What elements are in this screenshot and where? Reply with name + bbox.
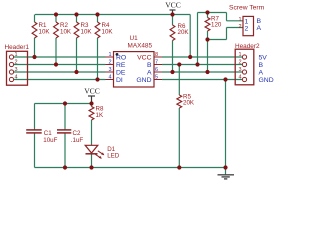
wire U1 left pin stub <box>106 64 114 66</box>
wire VCC top bus <box>35 14 190 16</box>
wire R7 bottom lead <box>207 31 209 40</box>
wire net DI row <box>14 79 106 81</box>
svg-text:B: B <box>257 18 262 25</box>
svg-text:20K: 20K <box>178 29 190 36</box>
svg-text:GND: GND <box>259 77 274 84</box>
wire vcc rail bottom left <box>35 103 92 105</box>
wire U1 left pin stub <box>106 56 114 58</box>
node junction VCC2 R8 <box>89 101 93 105</box>
node junction C2 top <box>63 101 67 105</box>
svg-text:Screw Term: Screw Term <box>229 5 265 12</box>
node junction bus R4 <box>95 12 99 16</box>
wire net DE row <box>14 71 106 73</box>
svg-text:DE: DE <box>116 69 126 76</box>
svg-text:MAX485: MAX485 <box>128 43 153 50</box>
wire U1 right pin stub <box>154 79 162 81</box>
wire R1 top lead <box>34 15 36 23</box>
svg-text:VCC: VCC <box>165 1 181 10</box>
node junction bus R3 <box>74 12 78 16</box>
node junction R5 gnd <box>177 165 181 169</box>
wire R7 bottom bus <box>208 39 227 41</box>
wire R7 top lead <box>207 13 209 18</box>
wire B branch <box>197 13 199 65</box>
svg-text:C2: C2 <box>73 130 81 137</box>
node junction B R5 <box>177 62 181 66</box>
resistor R1 <box>32 22 37 38</box>
resistor R3 <box>74 22 79 38</box>
svg-text:3: 3 <box>108 67 111 73</box>
wire R7 top bus <box>198 12 227 14</box>
wire net RE row <box>14 64 106 66</box>
resistor R6 <box>170 25 175 41</box>
Header2 pin 4 circle <box>242 77 246 81</box>
wire R2 bottom lead <box>55 38 57 65</box>
wire R2 top lead <box>55 15 57 23</box>
capacitor C1 <box>26 130 42 133</box>
svg-text:20K: 20K <box>183 100 195 107</box>
node junction VCC pin8 <box>188 55 192 59</box>
wire screw pin2 <box>227 27 244 29</box>
power VCC symbol top <box>170 10 176 15</box>
resistor R4 <box>95 22 100 38</box>
svg-text:2: 2 <box>108 60 111 66</box>
wire R8 to LED <box>91 120 93 145</box>
svg-text:2: 2 <box>245 25 249 32</box>
node junction R3 row3 <box>74 70 78 74</box>
svg-text:U1: U1 <box>130 35 139 42</box>
svg-text:GND: GND <box>136 77 151 84</box>
svg-text:VCC: VCC <box>84 87 100 96</box>
node junction R4 row4 <box>95 77 99 81</box>
svg-text:4: 4 <box>15 75 18 81</box>
svg-text:1: 1 <box>108 52 111 58</box>
wire net RO row <box>14 56 106 58</box>
power VCC symbol lower left <box>88 96 95 104</box>
svg-text:B: B <box>259 62 264 69</box>
node junction B pin7 <box>195 62 199 66</box>
ground symbol <box>218 168 235 179</box>
Header1 pin 4 circle <box>9 77 13 81</box>
wire U1 right pin stub <box>154 71 162 73</box>
screw terminal body <box>243 16 254 35</box>
wire R3 bottom lead <box>76 38 78 72</box>
node junction C2 bottom <box>63 165 67 169</box>
svg-text:8: 8 <box>155 52 158 58</box>
node junction R1 row1 <box>32 55 36 59</box>
wire C1 bottom lead <box>34 133 36 168</box>
svg-text:3: 3 <box>238 67 241 73</box>
wire screw pin2 rise <box>226 28 228 40</box>
wire R3 top lead <box>76 15 78 23</box>
Header1 pin 2 circle <box>9 62 13 66</box>
wire R1 bottom lead <box>34 38 36 57</box>
wire R6 top lead <box>172 15 174 26</box>
resistor R5 <box>177 95 182 108</box>
svg-text:DI: DI <box>116 77 123 84</box>
wire U1 left pin stub <box>106 71 114 73</box>
svg-text:1: 1 <box>238 17 241 23</box>
svg-text:10K: 10K <box>39 29 51 36</box>
svg-text:10K: 10K <box>60 29 72 36</box>
node junction R2 row2 <box>54 62 58 66</box>
svg-text:Header1: Header1 <box>5 44 30 51</box>
resistor R8 <box>89 107 94 121</box>
node junction gnd corner <box>223 165 227 169</box>
svg-text:4: 4 <box>108 75 111 81</box>
wire R6 bottom to A <box>172 41 174 73</box>
resistor R7 <box>205 18 210 32</box>
LED D1 <box>85 145 104 158</box>
wire net GND row pin5 <box>162 79 242 81</box>
svg-text:VCC: VCC <box>137 54 151 61</box>
svg-text:.1uF: .1uF <box>71 137 84 144</box>
connector Header1 body <box>7 51 28 85</box>
svg-text:10uF: 10uF <box>43 137 57 144</box>
svg-text:3: 3 <box>15 67 18 73</box>
Header1 pin 1 circle <box>9 55 13 59</box>
svg-text:A: A <box>147 69 152 76</box>
capacitor C2 <box>57 130 71 133</box>
svg-text:4: 4 <box>238 75 241 81</box>
U1 pin 1 marker <box>116 53 119 56</box>
svg-text:5V: 5V <box>259 54 268 61</box>
svg-text:1K: 1K <box>96 112 104 119</box>
wire gnd rail <box>35 167 226 169</box>
Header2 pin 2 circle <box>242 62 246 66</box>
svg-text:10K: 10K <box>81 29 93 36</box>
resistor R2 <box>54 22 59 38</box>
wire R5 bottom to gnd rail <box>178 108 180 168</box>
wire C2 top lead <box>64 104 66 130</box>
svg-text:2: 2 <box>238 60 241 66</box>
wire screw pin1 drop <box>226 13 228 21</box>
wire R4 bottom lead <box>97 38 99 80</box>
svg-text:2: 2 <box>238 24 241 30</box>
node junction A R6 <box>170 70 174 74</box>
svg-text:1: 1 <box>245 18 249 25</box>
op-amp U1 MAX485 body <box>114 52 155 87</box>
wire U1 left pin stub <box>106 79 114 81</box>
wire C2 bottom lead <box>64 133 66 168</box>
wire net B row pin7 <box>162 64 242 66</box>
svg-text:Header2: Header2 <box>235 43 260 50</box>
svg-text:A: A <box>257 25 262 32</box>
wire screw pin1 <box>227 20 244 22</box>
svg-text:1: 1 <box>15 52 18 58</box>
svg-text:A: A <box>259 69 264 76</box>
Header1 pin 3 circle <box>9 70 13 74</box>
connector Header2 body <box>235 49 254 85</box>
Header2 pin 1 circle <box>242 55 246 59</box>
svg-text:5: 5 <box>155 75 158 81</box>
svg-text:C1: C1 <box>44 130 52 137</box>
node junction bus VCC <box>170 12 174 16</box>
wire U1 right pin stub <box>154 56 162 58</box>
node junction R7 top <box>205 10 209 14</box>
svg-text:RO: RO <box>116 54 126 61</box>
wire net A row pin6 <box>162 71 242 73</box>
svg-text:LED: LED <box>107 152 120 159</box>
svg-text:6: 6 <box>155 67 158 73</box>
svg-text:2: 2 <box>15 60 18 66</box>
wire VCC to U1 pin8 <box>189 15 191 58</box>
svg-text:10K: 10K <box>102 29 114 36</box>
svg-text:7: 7 <box>155 60 158 66</box>
node junction LED gnd <box>89 165 93 169</box>
node junction A R7 <box>205 70 209 74</box>
node junction GND row <box>223 77 227 81</box>
wire U1 right pin stub <box>154 64 162 66</box>
wire R7 bottom to A <box>207 40 209 73</box>
Header2 pin 3 circle <box>242 70 246 74</box>
wire C1 top lead <box>34 104 36 130</box>
svg-text:B: B <box>147 62 152 69</box>
wire R5 top lead <box>178 65 180 96</box>
node junction R7 bottom <box>205 37 209 41</box>
svg-text:RE: RE <box>116 62 126 69</box>
node junction bus R2 <box>54 12 58 16</box>
wire LED to gnd rail <box>91 154 93 168</box>
wire R8 top lead <box>91 104 93 107</box>
wire R4 top lead <box>97 15 99 23</box>
wire net VCC row pin8 <box>162 56 242 58</box>
svg-text:1: 1 <box>238 52 241 58</box>
svg-text:120: 120 <box>211 22 222 29</box>
wire gnd drop <box>225 80 227 168</box>
